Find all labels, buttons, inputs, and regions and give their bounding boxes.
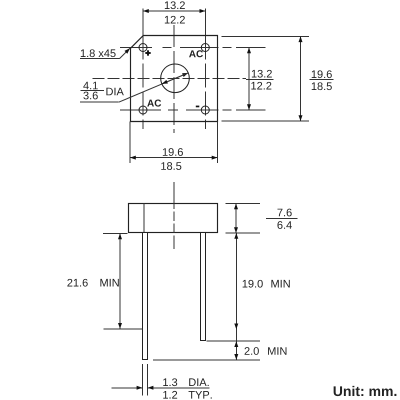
dimension 1.3 DIA / 1.2 TYP lead diameter (141, 364, 143, 396)
text label "12.2" (165, 16, 185, 24)
text label "19.6" (312, 70, 332, 78)
right lead (201, 233, 206, 341)
text label "1.3" (163, 378, 177, 386)
mounting hole bottom-left (139, 106, 147, 114)
center line horizontal through top hole row (120, 47, 232, 49)
text label "MIN" (271, 280, 289, 288)
text label "2.0" (245, 347, 259, 355)
extension line top hole row to right dimension (236, 47, 265, 49)
text label "4.1" (83, 82, 98, 90)
text label "3.6" (83, 92, 97, 100)
extension line left hole to top dimension (142, 9, 144, 36)
dimension 21.6 MIN left lead (103, 232, 128, 234)
center line horizontal through center hole (93, 77, 247, 79)
text label "19.0" (243, 280, 263, 288)
mounting hole top-left (139, 44, 147, 52)
text label "18.5" (312, 82, 332, 90)
text label "MIN" (268, 347, 286, 355)
dimension 7.6/6.4 body height (226, 203, 260, 205)
text label "21.6" (67, 279, 87, 287)
text label "AC" (189, 50, 203, 57)
text label "AC" (147, 100, 161, 107)
text label "DIA." (189, 378, 208, 386)
mounting hole bottom-right (201, 106, 209, 114)
center line vertical right hole column (204, 36, 206, 130)
dimension top 13.2/12.2 (143, 10, 205, 12)
text label "19.6" (163, 148, 183, 156)
text label "MIN" (100, 279, 118, 287)
center line horizontal through bottom hole row (120, 109, 232, 111)
extension line bottom hole row to right dimension (236, 109, 265, 111)
extension line right hole to top dimension (204, 9, 206, 36)
side view center line (173, 182, 175, 249)
left lead (143, 233, 148, 360)
text label "13.2" (252, 70, 272, 78)
center line vertical left hole column (142, 36, 144, 130)
text label "6.4" (277, 221, 291, 229)
text label "13.2" (165, 1, 185, 9)
dimension 19.0 MIN right lead (206, 340, 260, 342)
dimension far right 19.6/18.5 (222, 35, 310, 37)
dimension 2.0 MIN lead end offset (153, 359, 260, 361)
dimension bottom 19.6/18.5 (129, 122, 131, 164)
minus terminal mark (196, 106, 200, 108)
text label "1.2" (163, 391, 177, 399)
text label "12.2" (251, 82, 271, 90)
text label "Unit: mm." (334, 386, 397, 396)
center line vertical middle (173, 25, 175, 133)
text label "DIA" (106, 88, 123, 96)
center hole (161, 64, 190, 93)
text label "7.6" (277, 209, 291, 217)
body inner edge line (143, 203, 145, 233)
text label "TYP." (189, 391, 212, 399)
plus terminal mark (145, 50, 150, 55)
dimension right inner 13.2/12.2 (248, 48, 250, 111)
diameter leader through center hole (119, 73, 189, 102)
package outline top view with chamfer (131, 36, 218, 122)
mounting hole top-right (201, 44, 209, 52)
text label "18.5" (161, 162, 181, 170)
package body side view (129, 204, 218, 233)
text label "1.8 x45" (81, 49, 116, 57)
